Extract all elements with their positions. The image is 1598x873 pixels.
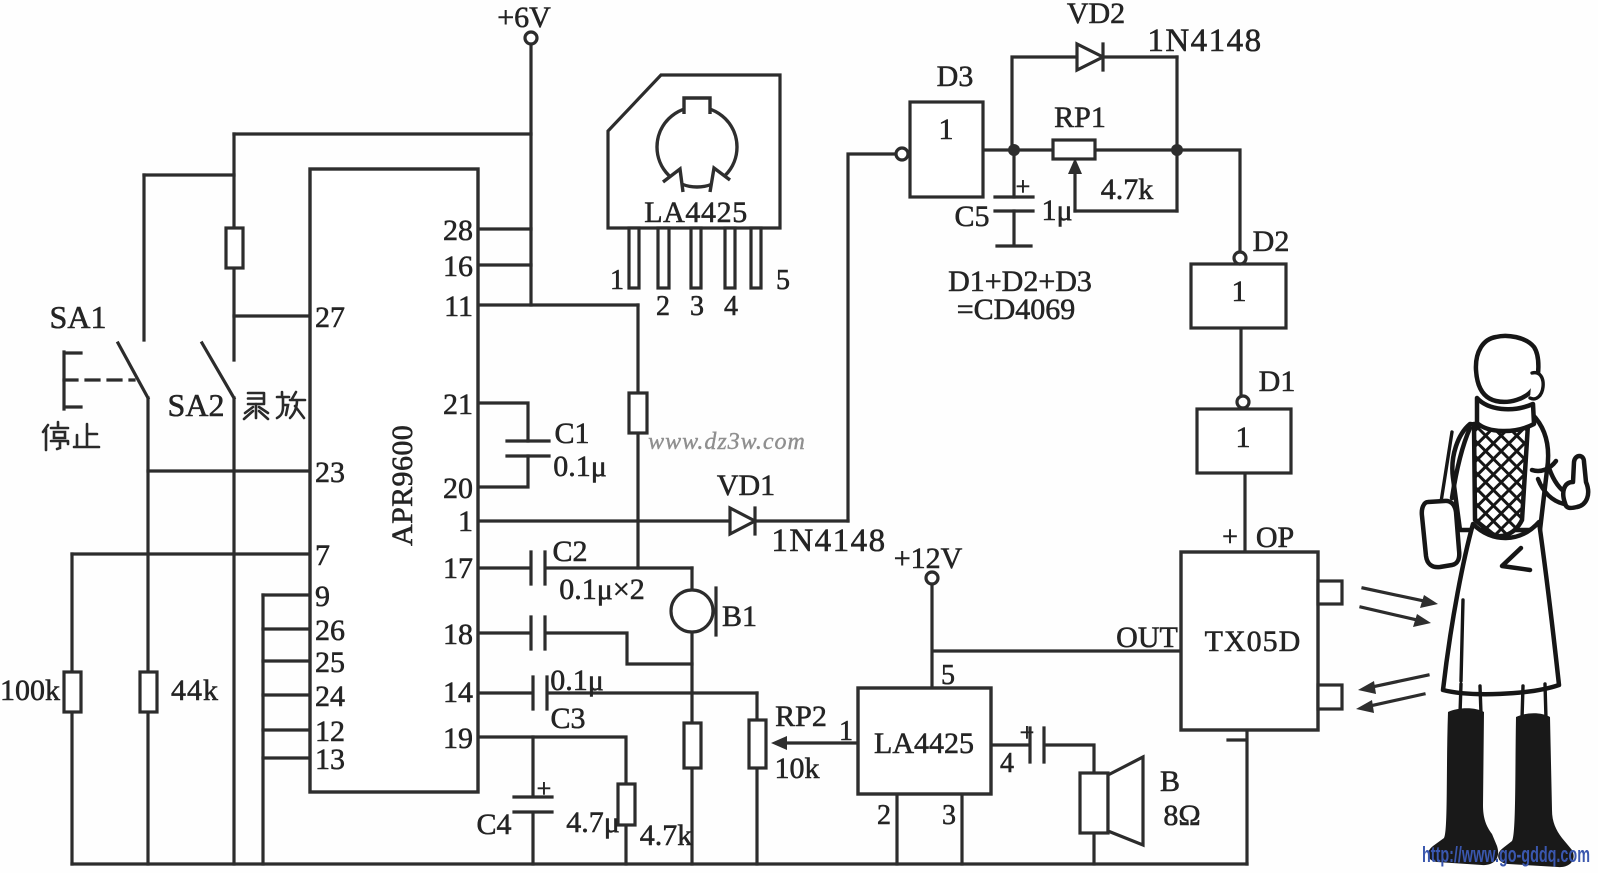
svg-text:SA1: SA1 bbox=[50, 299, 107, 335]
svg-text:3: 3 bbox=[942, 800, 956, 831]
svg-text:4: 4 bbox=[1000, 748, 1014, 779]
svg-text:4.7μ: 4.7μ bbox=[566, 806, 620, 839]
svg-text:14: 14 bbox=[443, 676, 473, 709]
svg-text:4.7k: 4.7k bbox=[640, 819, 693, 852]
svg-text:27: 27 bbox=[315, 301, 345, 334]
svg-text:+: + bbox=[1222, 522, 1238, 553]
svg-text:SA2: SA2 bbox=[168, 387, 225, 423]
svg-text:8Ω: 8Ω bbox=[1163, 799, 1200, 832]
svg-text:www.dz3w.com: www.dz3w.com bbox=[648, 429, 806, 455]
svg-text:+6V: +6V bbox=[497, 1, 551, 34]
svg-text:10k: 10k bbox=[775, 752, 820, 785]
svg-text:18: 18 bbox=[443, 618, 473, 651]
svg-text:B1: B1 bbox=[722, 600, 757, 633]
svg-text:1: 1 bbox=[1236, 421, 1251, 454]
svg-text:4.7k: 4.7k bbox=[1101, 173, 1154, 206]
svg-text:5: 5 bbox=[776, 265, 790, 296]
svg-text:C3: C3 bbox=[550, 702, 585, 735]
svg-text:LA4425: LA4425 bbox=[644, 196, 748, 229]
svg-text:5: 5 bbox=[941, 660, 955, 691]
svg-text:C5: C5 bbox=[954, 200, 989, 233]
svg-text:0.1μ: 0.1μ bbox=[550, 664, 604, 697]
svg-text:100k: 100k bbox=[0, 674, 60, 707]
svg-text:20: 20 bbox=[443, 472, 473, 505]
svg-text:0.1μ×2: 0.1μ×2 bbox=[559, 573, 645, 606]
svg-text:+12V: +12V bbox=[894, 542, 963, 575]
svg-text:VD2: VD2 bbox=[1067, 0, 1125, 30]
svg-text:+: + bbox=[1016, 172, 1031, 201]
svg-text:B: B bbox=[1160, 765, 1180, 798]
svg-text:C4: C4 bbox=[476, 808, 511, 841]
svg-text:D1: D1 bbox=[1259, 365, 1296, 398]
svg-text:1: 1 bbox=[610, 265, 624, 296]
svg-text:7: 7 bbox=[315, 539, 330, 572]
svg-text:17: 17 bbox=[443, 552, 473, 585]
svg-text:0.1μ: 0.1μ bbox=[553, 450, 607, 483]
svg-text:+: + bbox=[1020, 718, 1035, 747]
svg-text:1μ: 1μ bbox=[1041, 194, 1072, 227]
svg-text:1: 1 bbox=[1232, 275, 1247, 308]
svg-text:D3: D3 bbox=[937, 60, 974, 93]
svg-text:+: + bbox=[537, 774, 552, 803]
svg-text:LA4425: LA4425 bbox=[874, 727, 974, 760]
svg-text:1: 1 bbox=[458, 505, 473, 538]
svg-text:23: 23 bbox=[315, 456, 345, 489]
svg-text:28: 28 bbox=[443, 214, 473, 247]
svg-text:VD1: VD1 bbox=[717, 469, 775, 502]
svg-text:2: 2 bbox=[877, 800, 891, 831]
svg-text:OP: OP bbox=[1256, 521, 1294, 554]
svg-text:44k: 44k bbox=[171, 674, 219, 707]
svg-text:4: 4 bbox=[724, 291, 738, 322]
svg-text:11: 11 bbox=[444, 290, 473, 323]
svg-text:=CD4069: =CD4069 bbox=[957, 293, 1076, 326]
svg-text:21: 21 bbox=[443, 388, 473, 421]
svg-text:1N4148: 1N4148 bbox=[771, 523, 886, 559]
svg-text:1: 1 bbox=[839, 716, 853, 747]
svg-text:2: 2 bbox=[656, 291, 670, 322]
svg-text:13: 13 bbox=[315, 743, 345, 776]
svg-text:1N4148: 1N4148 bbox=[1147, 23, 1262, 59]
svg-text:D2: D2 bbox=[1253, 225, 1290, 258]
svg-text:TX05D: TX05D bbox=[1205, 625, 1302, 658]
svg-text:16: 16 bbox=[443, 250, 473, 283]
svg-text:26: 26 bbox=[315, 614, 345, 647]
svg-text:APR9600: APR9600 bbox=[386, 425, 419, 546]
svg-text:25: 25 bbox=[315, 646, 345, 679]
svg-text:OUT: OUT bbox=[1116, 621, 1178, 654]
svg-text:http://www.go-gddq.com: http://www.go-gddq.com bbox=[1422, 842, 1590, 867]
svg-text:RP2: RP2 bbox=[775, 700, 827, 733]
svg-text:9: 9 bbox=[315, 580, 330, 613]
svg-text:RP1: RP1 bbox=[1054, 101, 1106, 134]
svg-text:1: 1 bbox=[939, 113, 954, 146]
svg-text:24: 24 bbox=[315, 680, 345, 713]
svg-text:3: 3 bbox=[690, 291, 704, 322]
svg-text:C2: C2 bbox=[552, 535, 587, 568]
svg-text:19: 19 bbox=[443, 722, 473, 755]
svg-text:C1: C1 bbox=[554, 417, 589, 450]
